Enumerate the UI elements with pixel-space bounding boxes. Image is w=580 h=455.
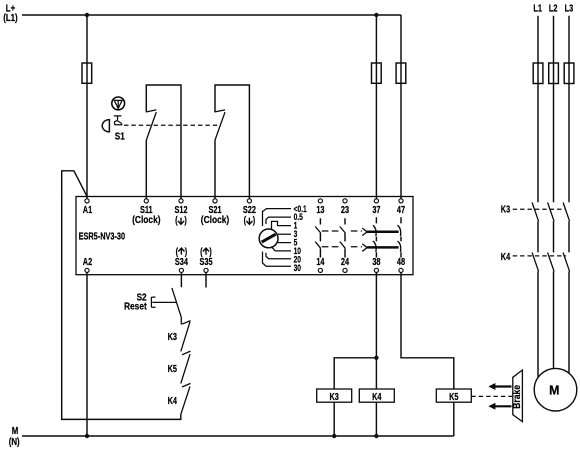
svg-text:K4: K4	[501, 251, 510, 263]
svg-text:S1: S1	[115, 129, 125, 141]
wire A2 down to M rail	[86, 273, 88, 437]
svg-text:A1: A1	[83, 204, 92, 216]
reset button S2 actuator	[151, 297, 176, 307]
coil K4	[359, 389, 394, 402]
terminal A2	[85, 268, 89, 272]
label (up arrow) over S34	[176, 246, 188, 258]
off-delay chevron row 2	[362, 244, 367, 252]
svg-text:K4: K4	[168, 395, 177, 407]
fuse F3 (47 branch)	[396, 63, 406, 83]
K4 mechanical link dashed	[513, 255, 566, 257]
wire branch to K3 coil	[334, 358, 376, 389]
wire K4 coil to M rail	[375, 402, 377, 436]
brake release arrow upper	[495, 385, 512, 387]
wire K3 coil to M rail	[333, 402, 335, 436]
svg-text:(: (	[175, 214, 177, 226]
contact 23-24 (instantaneous NO)	[344, 218, 346, 257]
delayed contact 37-38	[375, 217, 377, 257]
wire 47 up to L+ rail corner	[400, 15, 402, 199]
fuse F4 (L1)	[533, 63, 543, 84]
wire 37 up to L+ rail	[375, 15, 377, 199]
node junction on L+ rail at A1 branch	[85, 13, 89, 17]
terminal 14	[318, 268, 322, 272]
terminal S34	[179, 268, 183, 272]
terminal 24	[343, 268, 347, 272]
svg-text:(Clock): (Clock)	[132, 214, 160, 226]
svg-text:L2: L2	[549, 2, 558, 14]
svg-text:L3: L3	[565, 2, 574, 14]
svg-text:K4: K4	[372, 391, 381, 403]
brake release arrow lower	[495, 405, 512, 407]
terminal 47	[399, 199, 403, 203]
svg-text:37: 37	[372, 204, 380, 216]
delayed contact 47-48	[400, 217, 402, 257]
svg-text:): )	[253, 214, 255, 226]
node junction K3 on M rail	[332, 434, 336, 438]
wire 48 down to K5 coil	[401, 273, 454, 390]
contactor K4 main contacts	[532, 253, 570, 272]
label (down arrow) under S22	[244, 214, 256, 226]
wire phase L1	[537, 16, 539, 378]
emergency stop S1 mushroom head	[112, 97, 125, 110]
terminal S21	[213, 199, 217, 203]
node junction on L+ rail at 37 branch	[374, 13, 378, 17]
svg-text:(L1): (L1)	[3, 12, 17, 23]
svg-text:ESR5-NV3-30: ESR5-NV3-30	[79, 230, 125, 242]
contactor K4 feedback contact (NC)	[181, 383, 191, 414]
S1 palm actuator half-circle	[102, 120, 109, 132]
label (down arrow) under S12	[175, 214, 187, 226]
delay linkage bar row 1	[367, 230, 399, 233]
terminal S22	[247, 199, 251, 203]
svg-text:K3: K3	[330, 391, 339, 403]
svg-text:L1: L1	[533, 2, 542, 14]
wire stub S34	[180, 273, 182, 288]
svg-text:A2: A2	[83, 256, 92, 268]
svg-text:(N): (N)	[9, 436, 20, 447]
terminal 38	[374, 268, 378, 272]
safety relay U1 ESR5-NV3-30 outline	[76, 197, 413, 275]
rotary time selector switch	[259, 229, 278, 248]
dashed link K5 to brake	[471, 395, 512, 397]
terminal 48	[399, 268, 403, 272]
brake wedge	[513, 370, 523, 422]
svg-text:24: 24	[341, 256, 349, 268]
fuse F5 (L2)	[549, 63, 559, 84]
delay linkage bar row 2	[367, 246, 399, 249]
svg-text:K5: K5	[449, 391, 458, 403]
svg-text:M: M	[549, 383, 559, 397]
svg-text:S34: S34	[175, 256, 188, 268]
svg-text:47: 47	[397, 204, 405, 216]
svg-text:14: 14	[316, 256, 324, 268]
net M (N) bottom rail	[22, 435, 454, 437]
fuse F1 (A1 supply)	[82, 63, 92, 83]
motor M1	[534, 368, 577, 411]
wire L+ down to A1	[86, 15, 88, 199]
svg-text:23: 23	[341, 204, 349, 216]
wire feedback loop to A1	[62, 171, 181, 420]
rotary selector position lines	[263, 209, 292, 267]
S1 mechanical linkage dashed line	[124, 124, 219, 126]
S1 latching mechanism symbol	[114, 116, 123, 125]
S1 contact 1 (S11-S12, NC)	[146, 110, 156, 140]
fuse F6 (L3)	[564, 63, 574, 84]
svg-text:30: 30	[294, 263, 302, 273]
wire loop S21 to S22	[215, 85, 249, 199]
terminal S12	[179, 199, 183, 203]
svg-text:K3: K3	[501, 203, 510, 215]
mechanical link dashes row 2	[322, 246, 362, 248]
off-delay chevron row 1	[362, 228, 367, 236]
wire stub S35	[205, 273, 207, 288]
contactor K5 feedback contact (NC)	[181, 351, 191, 383]
K3 mechanical link dashed	[513, 208, 566, 210]
contactor K3 main contacts	[532, 203, 570, 222]
svg-text:S35: S35	[199, 256, 212, 268]
terminal S35	[204, 268, 208, 272]
node junction A2 on M rail	[85, 434, 89, 438]
wire loop S11 to S12	[146, 85, 181, 199]
wire phase L3	[568, 16, 570, 374]
node junction 38/K3 branch	[374, 356, 378, 360]
wire phase L2	[553, 16, 555, 369]
terminal A1	[85, 199, 89, 203]
svg-text:): )	[184, 214, 186, 226]
mechanical link dashes row 1	[322, 230, 362, 232]
coil K3	[317, 389, 352, 402]
terminal 13	[318, 199, 322, 203]
svg-text:K5: K5	[168, 363, 177, 375]
svg-text:38: 38	[372, 256, 380, 268]
svg-text:Reset: Reset	[124, 301, 148, 313]
svg-text:48: 48	[397, 256, 405, 268]
wire 38 down to coils	[375, 273, 377, 390]
contactor K3 feedback contact (NC)	[181, 321, 191, 352]
svg-text:K3: K3	[168, 331, 177, 343]
wire K5 coil to M rail	[453, 402, 455, 436]
svg-text:(Clock): (Clock)	[201, 214, 229, 226]
label (up arrow) over S35	[200, 246, 212, 258]
S1 contact 2 (S21-S22, NC)	[215, 110, 225, 140]
node junction K4 on M rail	[374, 434, 378, 438]
contact 13-14 (instantaneous NO)	[319, 218, 321, 257]
coil K5	[436, 389, 471, 402]
fuse F2 (37 branch)	[372, 63, 382, 83]
reset button S2 contact (NO)	[172, 288, 181, 325]
terminal 23	[343, 199, 347, 203]
svg-text:M: M	[12, 425, 19, 436]
svg-text:13: 13	[316, 204, 324, 216]
terminal S11	[144, 199, 148, 203]
terminal 37	[374, 199, 378, 203]
svg-text:Brake: Brake	[511, 385, 523, 409]
net L+ (L1) top rail	[22, 14, 401, 16]
svg-text:(: (	[244, 214, 246, 226]
